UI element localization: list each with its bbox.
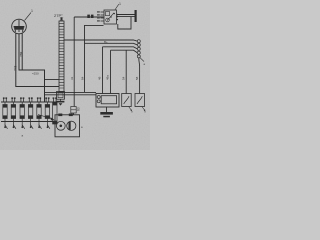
fuse F5 xyxy=(37,97,42,128)
wire relay bottom loop xyxy=(118,17,131,29)
wire lamp lead B (middle, to fuse block feed) xyxy=(19,33,45,102)
control box U1 (turn signal unit) xyxy=(96,94,119,108)
fuse F4 xyxy=(28,97,33,128)
svg-text:768: 768 xyxy=(19,51,23,57)
svg-text:84: 84 xyxy=(81,76,85,80)
switch S2 xyxy=(135,94,145,107)
fuse block bottom bus xyxy=(1,121,53,123)
switch S2 tail and label b xyxy=(142,107,147,114)
switch S1 tail and label b xyxy=(129,107,134,114)
connector marks on top feed xyxy=(87,15,90,18)
fuse F3 xyxy=(20,97,25,128)
wire pair strip box to control box xyxy=(45,92,97,94)
connector X2 tail label xyxy=(140,58,146,66)
relay K1 pointer and label 1 xyxy=(115,2,121,10)
relay K1 left pins xyxy=(97,11,104,21)
ground G1 under strip box xyxy=(57,99,65,105)
wire lamp lead C (right) xyxy=(21,33,23,70)
wire connector to flasher xyxy=(73,113,75,115)
flasher connector X3 xyxy=(71,107,76,114)
svg-text:49: 49 xyxy=(98,76,102,80)
svg-text:1: 1 xyxy=(31,9,33,13)
wire drop x95 to control box xyxy=(102,47,104,94)
connector strip X1 (ladder bar) xyxy=(59,21,64,92)
wire lamp lead A (left, to connector strip box) xyxy=(16,33,59,86)
wire branch to strip box right xyxy=(45,79,60,81)
fuse F1 xyxy=(3,97,8,128)
wire relay to terminal (double) xyxy=(117,15,135,17)
connector X2 terminals (circle column right) xyxy=(137,40,140,58)
fuse F7 (tall right element) xyxy=(53,97,58,124)
wire drop x121.5 to switch S1 xyxy=(125,50,127,93)
svg-text:54: 54 xyxy=(121,76,125,80)
switch S1 xyxy=(122,94,132,107)
wire bus H4 (y52) xyxy=(111,50,138,53)
wire vertical to flasher connector xyxy=(73,17,75,107)
wire relay lower branch xyxy=(85,25,104,92)
flasher pointer arrow xyxy=(38,115,55,121)
svg-text:27P°: 27P° xyxy=(54,13,63,18)
svg-text:1: 1 xyxy=(119,2,121,6)
svg-text:B+: B+ xyxy=(104,40,108,44)
wire bus H3 (y48) xyxy=(103,47,138,49)
connector strip star mark xyxy=(60,17,63,21)
wire top feed to relay xyxy=(74,16,103,18)
fuse block top bus xyxy=(1,101,57,103)
fuse F2 xyxy=(11,97,16,128)
svg-text:743: 743 xyxy=(13,65,17,71)
wire bus H2 (y44) xyxy=(85,43,138,45)
lamp H1 pointer and label 1 xyxy=(25,9,34,21)
svg-text:31: 31 xyxy=(70,76,74,80)
strip terminal box xyxy=(57,92,65,100)
terminal post 30 xyxy=(135,10,137,22)
fuse F6 xyxy=(45,97,50,128)
svg-text:60: 60 xyxy=(77,107,81,111)
wire drop x135 from connector to switch S2 xyxy=(138,58,141,94)
relay K1 right pin dots xyxy=(117,14,119,16)
wire drop x107.5 to control box xyxy=(110,50,112,93)
lamp H1 (indicator bulb top-left) xyxy=(12,19,27,34)
ground G2 under control box xyxy=(100,107,113,117)
svg-text:58: 58 xyxy=(135,76,139,80)
wire bus H1 from strip to connector (y40.5) xyxy=(64,40,137,41)
relay K1 (top right) xyxy=(104,10,117,24)
svg-text:49a: 49a xyxy=(106,75,110,80)
flasher unit P1 (ignition/flasher box) xyxy=(55,114,80,137)
svg-text:≈250: ≈250 xyxy=(32,72,39,76)
